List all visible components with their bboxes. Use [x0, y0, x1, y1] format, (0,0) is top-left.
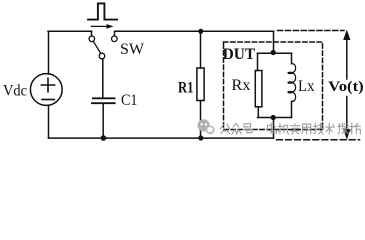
capacitor C1 top lead from switch pole [102, 59, 104, 98]
capacitor C1 bottom lead [102, 104, 104, 138]
resistor R1 bottom lead [200, 101, 202, 139]
voltage source plus sign [41, 78, 54, 91]
voltage source minus sign [42, 99, 54, 101]
wire: top rail left segment to switch [48, 30, 92, 32]
inductor Lx top lead [291, 53, 293, 63]
Vo(t) arrow lower shaft and head [346, 97, 348, 132]
wire: DUT internal top [258, 52, 292, 54]
switch SW: right terminal stub and circle [114, 31, 116, 36]
resistor Rx body [255, 71, 262, 107]
switch SW: pole circle [99, 53, 105, 59]
DUT dashed box [224, 42, 323, 130]
svg-text:SW: SW [120, 41, 145, 58]
svg-text:Vo(t): Vo(t) [328, 79, 364, 95]
wire: DUT bottom feed to bottom rail [273, 118, 275, 139]
dashed measurement line top [278, 30, 345, 32]
node: R1 junction dot on bottom rail [198, 135, 203, 140]
resistor R1 body [197, 68, 204, 101]
bottom rail wire [49, 137, 274, 139]
wire: DUT feed down from top rail [273, 31, 275, 53]
pulse trigger symbol [88, 3, 117, 19]
wire: top rail right segment from switch to DUT feed corner [115, 30, 274, 32]
voltage source Vdc circle [30, 74, 62, 106]
node: DUT top junction dot [271, 50, 276, 55]
resistor Rx bottom lead [257, 107, 259, 118]
capacitor C1 plates [93, 97, 115, 99]
watermark text (grey CJK watermark drawn as outline glyph strokes) [221, 123, 361, 134]
watermark logo [198, 119, 215, 134]
trigger arrow [92, 25, 108, 27]
resistor Rx top lead [257, 53, 259, 70]
switch SW: left terminal stub and circle [91, 31, 93, 36]
svg-text:C1: C1 [121, 92, 138, 109]
Vo(t) arrow upper shaft and head [346, 38, 348, 79]
dashed measurement line bottom [277, 139, 360, 141]
wire: Vdc bottom to bottom rail [48, 106, 50, 139]
wire: DUT internal bottom [258, 117, 292, 119]
node: DUT bottom junction dot [271, 115, 276, 120]
svg-text:R1: R1 [178, 79, 194, 96]
node: R1 junction dot on top rail [198, 29, 203, 34]
switch SW: blade from left terminal to pole [93, 41, 100, 53]
inductor Lx coil [288, 64, 296, 102]
node: C1 junction dot on bottom rail [101, 135, 107, 141]
wire: left rail top (Vdc top to top rail corner) [48, 31, 50, 74]
resistor R1 top lead [200, 31, 202, 68]
svg-text:Lx: Lx [298, 78, 315, 95]
svg-text:Rx: Rx [232, 77, 251, 94]
svg-text:Vdc: Vdc [3, 83, 27, 100]
svg-text:DUT: DUT [223, 46, 256, 63]
inductor Lx bottom lead [291, 101, 293, 117]
